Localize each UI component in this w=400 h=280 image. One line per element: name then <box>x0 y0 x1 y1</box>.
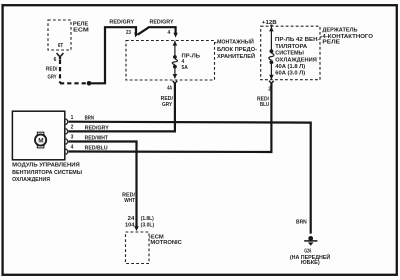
svg-text:6: 6 <box>54 57 57 63</box>
connector 6 (fork symbol) <box>54 53 64 63</box>
svg-text:ЮБКЕ): ЮБКЕ) <box>301 260 320 266</box>
motor M symbol <box>35 132 46 148</box>
svg-text:БЛОК ПРЕДО-: БЛОК ПРЕДО- <box>217 47 257 53</box>
pin 1 <box>66 115 74 125</box>
svg-text:RED/GRY: RED/GRY <box>109 20 135 26</box>
svg-text:104: 104 <box>125 223 135 229</box>
fuse 42 cooling fan inside relay holder <box>269 26 320 79</box>
svg-text:ВЕНТИЛЯТОРА СИСТЕМЫ: ВЕНТИЛЯТОРА СИСТЕМЫ <box>12 170 82 176</box>
wire BRN pin1 to ground run <box>69 116 311 234</box>
fuse 4 5A inside <box>172 41 200 79</box>
svg-text:RED/WHT: RED/WHT <box>85 135 108 141</box>
svg-text:GRY: GRY <box>48 74 58 80</box>
svg-text:МОДУЛЬ УПРАВЛЕНИЯ: МОДУЛЬ УПРАВЛЕНИЯ <box>12 163 80 169</box>
svg-text:5А: 5А <box>182 65 189 71</box>
svg-text:60А (3.0 Л): 60А (3.0 Л) <box>275 70 305 76</box>
pin 4 <box>66 145 74 155</box>
svg-text:ПР-ЛЬ 42 ВЕН-: ПР-ЛЬ 42 ВЕН- <box>275 37 320 43</box>
relay holder dashed box <box>261 26 373 79</box>
svg-text:24: 24 <box>128 216 135 222</box>
svg-text:G26: G26 <box>304 248 311 254</box>
svg-text:RED/GRY: RED/GRY <box>85 126 110 132</box>
wire RED/GRY to fuse box terminal 23 <box>89 20 138 84</box>
fuse box (montage block) dashed box <box>126 37 257 80</box>
labels RED/WHT vertical run <box>122 193 154 229</box>
svg-text:40А (1.8 Л): 40А (1.8 Л) <box>275 64 305 70</box>
module label <box>12 163 82 183</box>
svg-text:4: 4 <box>168 30 171 36</box>
ECM MOTRONIC dashed box <box>126 232 183 264</box>
svg-text:4А: 4А <box>167 85 172 91</box>
svg-text:BRN: BRN <box>85 116 95 122</box>
svg-text:ОХЛАЖДЕНИЯ: ОХЛАЖДЕНИЯ <box>275 58 317 64</box>
svg-text:6Т: 6Т <box>58 43 63 49</box>
relay ECM dashed box <box>48 20 89 50</box>
svg-text:4: 4 <box>71 145 74 151</box>
+12V feed <box>262 20 277 27</box>
svg-text:2: 2 <box>71 125 74 131</box>
wire RED/GRY dashed from ECM relay <box>46 60 86 84</box>
svg-text:2: 2 <box>268 86 271 92</box>
svg-text:BRN: BRN <box>296 219 307 225</box>
svg-text:ХРАНИТЕЛЕЙ: ХРАНИТЕЛЕЙ <box>217 52 255 60</box>
svg-text:(3.0L): (3.0L) <box>141 223 155 229</box>
svg-text:3: 3 <box>71 135 74 141</box>
svg-text:ДЕРЖАТЕЛЬ: ДЕРЖАТЕЛЬ <box>322 28 358 34</box>
svg-text:ТИЛЯТОРА: ТИЛЯТОРА <box>275 44 307 50</box>
ground G26 <box>290 219 331 266</box>
svg-text:23: 23 <box>126 30 131 36</box>
wire RED/WHT pin3 to ECM <box>69 135 139 231</box>
svg-text:BLU: BLU <box>260 102 270 108</box>
wire RED/GRY to module pin 2 <box>68 83 175 131</box>
svg-text:M: M <box>38 137 43 144</box>
pin 3 <box>66 135 74 145</box>
svg-text:РЕЛЕ: РЕЛЕ <box>322 39 340 45</box>
terminal 4A chevron <box>167 81 177 92</box>
svg-text:MOTRONIC: MOTRONIC <box>150 240 182 246</box>
svg-text:СИСТЕМЫ: СИСТЕМЫ <box>275 51 304 57</box>
svg-text:(1.8L): (1.8L) <box>141 216 154 222</box>
svg-text:RED/GRY: RED/GRY <box>150 20 175 26</box>
svg-text:МОНТАЖНЫЙ: МОНТАЖНЫЙ <box>217 37 254 45</box>
wire RED/BLU pin4 to relay holder <box>69 83 272 152</box>
pin 2 <box>66 125 74 135</box>
svg-text:WHT: WHT <box>124 198 135 204</box>
svg-text:1: 1 <box>71 115 74 121</box>
svg-text:GRY: GRY <box>162 102 173 108</box>
svg-text:ЕСМ: ЕСМ <box>73 27 89 33</box>
svg-text:RED/BLU: RED/BLU <box>85 145 108 151</box>
terminal 2 chevron <box>268 81 274 93</box>
svg-text:+12В: +12В <box>262 20 277 26</box>
labels RED/BLU vertical run <box>257 96 270 108</box>
svg-text:ОХЛАЖДЕНИЯ: ОХЛАЖДЕНИЯ <box>12 177 50 183</box>
svg-text:ПР-ЛЬ: ПР-ЛЬ <box>182 53 201 59</box>
junction dot <box>87 81 92 86</box>
wire terminal 23 to terminal 4 <box>138 20 178 38</box>
module box <box>12 111 64 160</box>
svg-text:RED/: RED/ <box>46 66 58 72</box>
